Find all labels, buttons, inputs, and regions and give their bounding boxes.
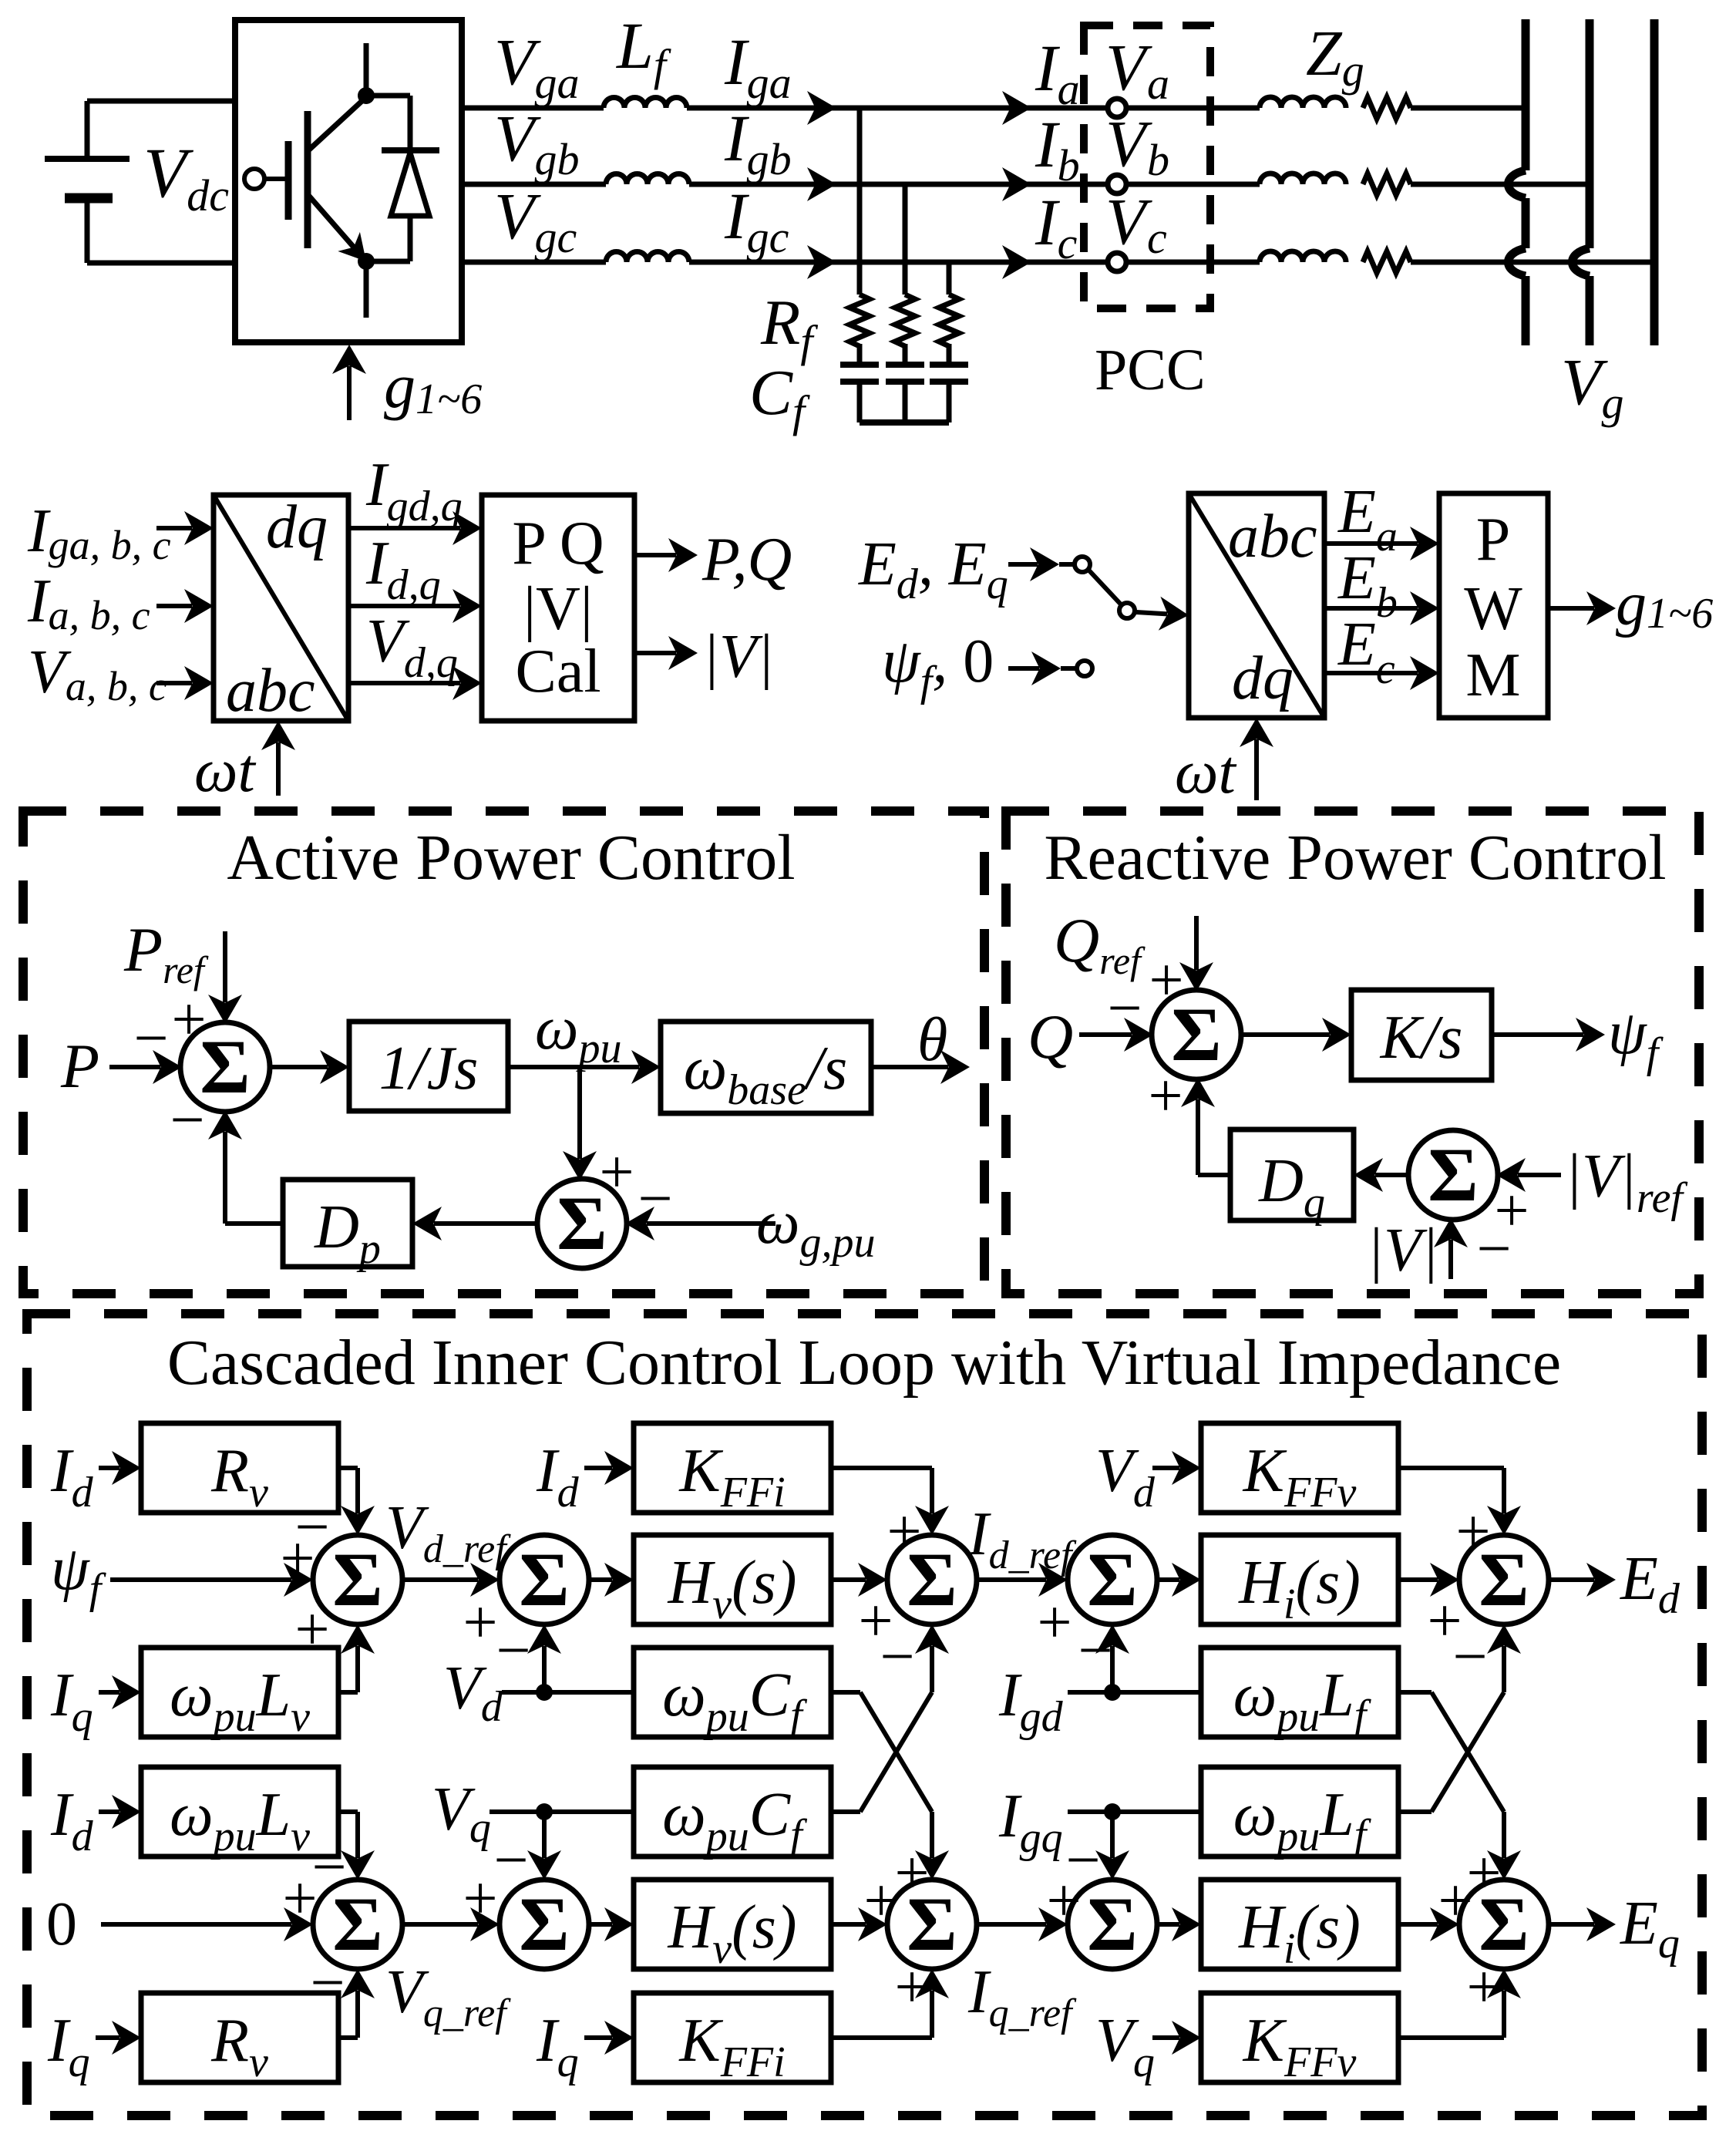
Cascaded Inner Control Loop dashed box — [27, 1314, 1702, 2116]
arrow wt into dq-abc block — [1254, 739, 1259, 800]
svg-text:Hi(s): Hi(s) — [1238, 1549, 1361, 1628]
wire KFFv to sum d — [1398, 1466, 1504, 1470]
svg-text:a: a — [1147, 59, 1169, 109]
wire Dq feedback — [1198, 1173, 1230, 1177]
summation Vd_ref first — [313, 1535, 402, 1624]
svg-text:−: − — [1078, 1617, 1112, 1685]
svg-text:+: + — [894, 1954, 929, 2021]
terminal Va circle — [1108, 99, 1126, 117]
svg-text:W: W — [1464, 575, 1522, 643]
block Hi(s) d-axis — [1201, 1535, 1398, 1624]
IGBT gate lead — [264, 177, 288, 181]
arrow Ea to PWM — [1324, 541, 1418, 546]
arrow Iq into wpuLv — [99, 1690, 119, 1695]
svg-text:|V|: |V| — [523, 575, 593, 643]
arrow sum to Hv(s) d — [589, 1577, 612, 1582]
block Dq — [1230, 1129, 1354, 1220]
svg-text:Q: Q — [1028, 1001, 1073, 1072]
arrow Idref to second sum — [977, 1577, 1046, 1582]
block wpuLv d-axis — [141, 1648, 338, 1737]
wire DC positive rail — [87, 99, 235, 104]
svg-text:Hi(s): Hi(s) — [1238, 1894, 1361, 1973]
wire common neutral bar — [860, 419, 949, 426]
arrow Qref into sum — [1194, 916, 1199, 970]
wire wpuLv to sum — [338, 1690, 358, 1695]
wire wpu branch down — [577, 1067, 582, 1153]
svg-text:+: + — [1037, 1589, 1072, 1657]
block wbase/s — [661, 1022, 871, 1113]
summation Ed output — [1459, 1535, 1549, 1624]
inductor Zg phase b — [1260, 173, 1346, 184]
svg-text:abc: abc — [1228, 503, 1317, 571]
svg-text:+: + — [1438, 1867, 1472, 1935]
arrow switch to dq-abc block — [1136, 612, 1167, 614]
diode D1 cathode bar — [382, 147, 439, 153]
wire KFFi q to sum — [831, 2035, 932, 2040]
wire Dp feedback — [225, 1221, 283, 1226]
svg-text:+: + — [171, 986, 206, 1054]
summation Q control — [1152, 990, 1241, 1079]
switch contact circle Ed,Eq — [1075, 557, 1090, 572]
wire Rf-Cf c — [947, 344, 952, 365]
svg-text:ψf, 0: ψf, 0 — [882, 628, 994, 705]
wire wpuLf d cross down — [1398, 1690, 1432, 1695]
svg-text:M: M — [1465, 641, 1520, 709]
wire Vd junction — [502, 1690, 544, 1695]
arrow Eb to PWM — [1324, 606, 1418, 611]
arrow Vdref sum to second sum — [402, 1577, 478, 1582]
arrow P,Q output — [634, 553, 676, 557]
capacitor Cf c — [930, 362, 968, 368]
svg-text:dq: dq — [266, 493, 328, 561]
wire Vq junction — [490, 1809, 544, 1814]
capacitor Cf a — [840, 362, 879, 368]
svg-text:θ: θ — [917, 1006, 947, 1074]
svg-text:abc: abc — [226, 657, 315, 725]
grid bus bar 1 with hops — [1522, 19, 1530, 170]
arrow Iqref to second sum — [977, 1922, 1046, 1927]
inductor Zg phase c — [1260, 251, 1346, 262]
arrow sum to Dp — [434, 1221, 539, 1226]
arrow zero into sum — [101, 1922, 291, 1927]
arrow wt into abc-dq block — [276, 742, 281, 796]
wire Cf to common b — [903, 382, 908, 422]
switch pole circle — [1119, 603, 1135, 618]
svg-text:+: + — [463, 1589, 497, 1657]
svg-text:0: 0 — [46, 1890, 77, 1958]
wire Rv q to sum — [338, 2035, 358, 2040]
wire Cf to common a — [857, 382, 863, 422]
svg-text:−: − — [170, 1086, 204, 1154]
svg-text:V: V — [1105, 30, 1152, 104]
arrow sum to Hi(s) q — [1157, 1922, 1179, 1927]
PCC dashed box — [1084, 25, 1210, 308]
summation Vq error — [500, 1880, 589, 1969]
block KFFv d-axis — [1201, 1423, 1398, 1513]
IGBT collector stub — [364, 43, 369, 96]
svg-text:+: + — [863, 1867, 898, 1935]
flow arrow Ib — [1002, 167, 1031, 201]
svg-text:+: + — [1466, 1954, 1501, 2021]
arrow sum to Dq — [1375, 1173, 1410, 1177]
arrow psi_f into sum — [110, 1577, 291, 1582]
block KFFi q-axis — [634, 1993, 831, 2082]
wire wpuCf q cross up — [831, 1809, 860, 1814]
wire Igq junction — [1068, 1809, 1112, 1814]
IGBT emitter diagonal with arrow — [308, 194, 354, 247]
block KFFv q-axis — [1201, 1993, 1398, 2082]
svg-text:+: + — [1149, 947, 1183, 1015]
inverter bridge box — [235, 20, 462, 342]
IGBT collector node dot — [358, 87, 375, 104]
flow arrow Igc — [807, 245, 836, 279]
arrow Hv to sum q — [831, 1922, 866, 1927]
arrow Pref into sum — [223, 931, 227, 1002]
svg-text:Hv(s): Hv(s) — [667, 1894, 796, 1973]
IGBT emitter node dot — [358, 253, 375, 270]
summation V magnitude — [1408, 1130, 1498, 1220]
block Dp — [283, 1180, 412, 1267]
PWM block — [1439, 493, 1548, 718]
wire shunt tap b — [903, 184, 908, 295]
svg-text:+: + — [294, 1596, 329, 1664]
abc to dq transform block — [214, 495, 348, 721]
summation Id_ref first — [887, 1535, 977, 1624]
wire 1/Js to wbase — [508, 1065, 639, 1069]
svg-text:Ed, Eq: Ed, Eq — [858, 530, 1008, 608]
gate signal arrow g1~6 — [347, 366, 352, 420]
svg-text:|V|: |V| — [702, 623, 774, 691]
svg-text:Σ: Σ — [332, 1537, 382, 1622]
svg-text:−: − — [1452, 1623, 1487, 1691]
block KFFi d-axis — [634, 1423, 831, 1513]
wire phase a from inverter — [462, 106, 604, 111]
flow arrow Ia — [1002, 91, 1031, 125]
wire Rf-Cf b — [903, 344, 908, 365]
svg-text:Hv(s): Hv(s) — [667, 1549, 796, 1628]
wire phase c to PCC — [689, 260, 1260, 265]
summation wpu-wgpu — [537, 1179, 627, 1268]
arrow Id into wpuLv q — [99, 1809, 119, 1814]
svg-text:+: + — [1148, 1062, 1183, 1130]
arrow |V|ref into sum — [1518, 1173, 1561, 1177]
wire wpuCf d cross down — [831, 1690, 860, 1695]
wire phase c to grid bus — [1411, 260, 1654, 265]
svg-text:−: − — [493, 1826, 528, 1894]
switch contact circle psi_f — [1077, 661, 1092, 676]
svg-text:1/Js: 1/Js — [379, 1035, 479, 1102]
wire shunt tap c — [947, 262, 952, 295]
block 1/Js — [349, 1022, 508, 1111]
svg-text:Cascaded Inner Control Loop wi: Cascaded Inner Control Loop with Virtual… — [167, 1327, 1561, 1399]
wire Rf-Cf a — [857, 344, 863, 365]
wire phase c from inverter — [462, 260, 606, 265]
svg-text:+: + — [599, 1139, 634, 1207]
dq to abc transform block — [1189, 493, 1324, 718]
diode D1 anode wire — [408, 216, 413, 261]
block Rv d-axis — [141, 1423, 338, 1513]
arrow Iga,b,c into block — [156, 526, 192, 530]
flow arrow Ic — [1002, 245, 1031, 279]
arrow sum to K/s — [1240, 1032, 1330, 1037]
block wpuLf q-axis — [1201, 1767, 1398, 1857]
switch blade wire — [1088, 569, 1122, 605]
arrow Vd into KFFv — [1152, 1466, 1179, 1470]
svg-text:ωt: ωt — [1175, 739, 1236, 806]
svg-text:V: V — [1105, 184, 1152, 258]
battery Vdc negative plate — [65, 194, 113, 204]
block wpuLv q-axis — [141, 1767, 338, 1857]
wire KFFv q to sum — [1398, 2035, 1504, 2040]
IGBT emitter stub — [364, 261, 369, 318]
block Hv(s) q-axis — [634, 1880, 831, 1969]
svg-text:Cal: Cal — [515, 638, 601, 705]
arrow theta output — [871, 1065, 948, 1069]
PQ |V| Cal block — [482, 495, 634, 721]
Reactive Power Control dashed box — [1006, 811, 1699, 1294]
inductor Lf phase c — [606, 252, 689, 263]
svg-text:−: − — [880, 1623, 914, 1691]
arrow Ia,b,c into block — [156, 604, 192, 608]
svg-text:Σ: Σ — [1428, 1132, 1478, 1217]
wire DC negative rail — [87, 261, 235, 266]
Active Power Control dashed box — [23, 811, 984, 1294]
arrow Q into sum — [1079, 1032, 1132, 1037]
arrow Hi to sum q — [1398, 1922, 1438, 1927]
svg-text:b: b — [1147, 135, 1169, 185]
svg-text:−: − — [1065, 1826, 1100, 1894]
wire wpuLf q cross up — [1398, 1809, 1432, 1814]
wire Rv to sum — [338, 1466, 358, 1470]
block wpuCf d-axis — [634, 1648, 831, 1737]
summation Pref-P-Dp — [180, 1022, 270, 1112]
wire Igd junction — [1068, 1690, 1112, 1695]
svg-text:Σ: Σ — [519, 1537, 569, 1622]
arrow |V| into sum — [1448, 1240, 1453, 1279]
svg-text:V: V — [1105, 106, 1152, 180]
flow arrow Iga — [807, 91, 836, 125]
svg-text:Σ: Σ — [200, 1024, 250, 1109]
arrow Va,b,c into block — [156, 681, 192, 685]
terminal Vc circle — [1108, 253, 1126, 271]
terminal Vb circle — [1108, 175, 1126, 194]
wire wpuLv q to sum — [338, 1809, 358, 1814]
wire phase a to grid bus — [1411, 106, 1526, 111]
svg-text:Σ: Σ — [1087, 1537, 1137, 1622]
summation Eq output — [1459, 1880, 1549, 1969]
arrow |V| output — [634, 651, 676, 655]
arrow Iq into KFFi q — [584, 2035, 612, 2040]
arrow P into sum — [109, 1065, 160, 1069]
inductor Lf phase a — [604, 98, 687, 108]
svg-text:P Q: P Q — [512, 510, 604, 577]
svg-text:+: + — [887, 1498, 921, 1566]
arrow psi_f output — [1492, 1032, 1583, 1037]
inductor Lf phase b — [606, 173, 689, 184]
resistor Rf c — [939, 295, 959, 346]
arrow sum to Hi(s) d — [1157, 1577, 1179, 1582]
capacitor Cf b — [886, 362, 924, 368]
wire phase b from inverter — [462, 182, 606, 187]
svg-text:−: − — [496, 1617, 530, 1685]
arrow Ed output — [1549, 1577, 1594, 1582]
arrow Ec to PWM — [1324, 671, 1418, 675]
arrow Id,q to PQ block — [348, 604, 460, 608]
svg-text:−: − — [1476, 1215, 1511, 1283]
resistor Zg phase c — [1363, 251, 1411, 273]
diode D1 triangle — [391, 153, 429, 216]
svg-text:−: − — [310, 1949, 345, 2017]
arrow sum to 1/Js — [268, 1065, 328, 1069]
wire phase b to grid bus — [1411, 182, 1590, 187]
svg-text:P,Q: P,Q — [701, 526, 792, 594]
svg-text:Reactive Power Control: Reactive Power Control — [1044, 822, 1666, 894]
arrow Eq output — [1549, 1922, 1594, 1927]
resistor Rf b — [895, 295, 915, 346]
arrow Iq into Rv q — [96, 2035, 119, 2040]
arrow Igd,q to PQ block — [348, 526, 460, 530]
wire shunt tap a — [857, 108, 863, 295]
block wpuLf d-axis — [1201, 1648, 1398, 1737]
summation Vd error — [500, 1535, 589, 1624]
summation Iq_ref first — [887, 1880, 977, 1969]
IGBT collector diagonal — [308, 97, 366, 151]
arrow psi_f,0 to switch — [1008, 666, 1039, 671]
svg-text:P: P — [60, 1031, 99, 1101]
IGBT gate bar — [285, 141, 292, 220]
grid bus bar 3 — [1650, 19, 1659, 345]
summation Iq error — [1068, 1880, 1157, 1969]
block Rv q-axis — [141, 1993, 338, 2082]
diode D1 wires — [364, 93, 410, 99]
flow arrow Igb — [807, 167, 836, 201]
arrow Hv to sum d — [831, 1577, 866, 1582]
IGBT gate circle — [244, 169, 264, 189]
arrow Vq into KFFv — [1152, 2035, 1179, 2040]
svg-text:K/s: K/s — [1380, 1004, 1463, 1072]
summation Id error — [1068, 1535, 1157, 1624]
IGBT body bar — [304, 111, 311, 248]
resistor Rf a — [849, 295, 870, 346]
resistor Zg phase a — [1363, 97, 1411, 119]
svg-text:+: + — [1455, 1498, 1490, 1566]
arrow sum to Hv(s) q — [589, 1922, 612, 1927]
resistor Zg phase b — [1363, 173, 1411, 195]
arrow Id into Rv — [99, 1466, 119, 1470]
arrow PWM output — [1548, 606, 1594, 611]
wire phase a to PCC — [687, 106, 1260, 111]
wire phase b to PCC — [689, 182, 1260, 187]
arrow Id into KFFi — [584, 1466, 612, 1470]
arrow Hi to sum d — [1398, 1577, 1438, 1582]
arrow wg,pu into sum — [647, 1221, 775, 1226]
block K/s — [1351, 990, 1492, 1080]
grid bus bar 2 with hop — [1586, 19, 1594, 248]
wire Cf to common c — [947, 382, 952, 422]
wire KFFi to sum d — [831, 1466, 932, 1470]
svg-text:|V|: |V| — [1367, 1217, 1438, 1284]
inductor Zg phase a — [1260, 97, 1346, 108]
svg-text:PCC: PCC — [1095, 338, 1206, 402]
summation Vq_ref first — [313, 1880, 402, 1969]
svg-text:c: c — [1147, 213, 1167, 263]
svg-text:ωt: ωt — [194, 737, 256, 805]
block Hv(s) d-axis — [634, 1535, 831, 1624]
arrow Ed,Eq to switch — [1008, 562, 1038, 567]
battery Vdc positive plate — [45, 156, 130, 162]
svg-text:dq: dq — [1232, 645, 1294, 712]
svg-text:+: + — [894, 1840, 929, 1907]
svg-text:Active Power Control: Active Power Control — [227, 822, 795, 894]
block Hi(s) q-axis — [1201, 1880, 1398, 1969]
arrow Vqref to second sum — [402, 1922, 478, 1927]
arrow Vd,q to PQ block — [348, 681, 460, 685]
svg-text:P: P — [1476, 506, 1511, 574]
block wpuCf q-axis — [634, 1767, 831, 1857]
svg-text:+: + — [463, 1865, 497, 1933]
